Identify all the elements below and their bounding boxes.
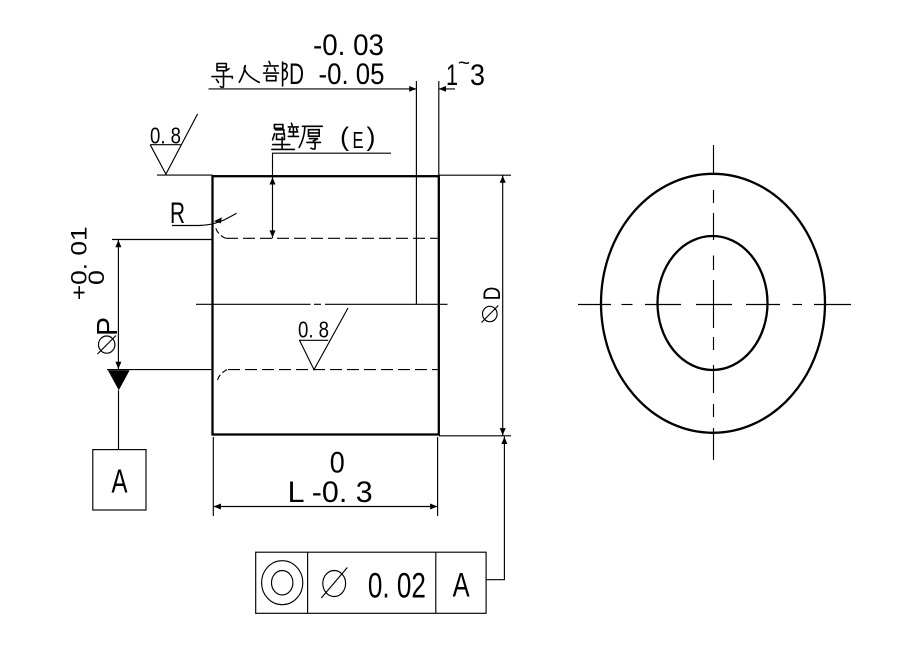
- surface roughness symbol 0.8 (inside bore, lower): [298, 308, 348, 370]
- surface roughness symbol 0.8 (top-left): [150, 114, 198, 174]
- horizontal centerline of body: [196, 303, 311, 305]
- right extension: [437, 437, 439, 516]
- body rectangle (front section view): [213, 176, 439, 434]
- svg-text:1: 1: [446, 59, 458, 92]
- svg-text:0. 8: 0. 8: [298, 317, 329, 343]
- svg-text:D: D: [479, 287, 506, 301]
- wall thickness arrows: [270, 177, 276, 184]
- left extension: [212, 437, 214, 516]
- svg-text:3: 3: [470, 59, 485, 92]
- svg-text:0. 02: 0. 02: [368, 567, 426, 606]
- lead-in depth extension line (x=416): [415, 81, 417, 304]
- bottom extension line: [439, 435, 511, 437]
- lower bore lead-in curve: [218, 370, 228, 380]
- svg-text:D: D: [289, 58, 304, 91]
- end view: outer circle: [601, 174, 825, 433]
- svg-text:L -0. 3: L -0. 3: [288, 476, 373, 509]
- diameter symbol: [323, 571, 346, 597]
- top edge extension line to left: [157, 174, 213, 176]
- CJK 部: [264, 62, 288, 86]
- right edge extension above body: [438, 81, 440, 176]
- svg-text:E: E: [353, 127, 364, 153]
- svg-text:0: 0: [330, 447, 345, 480]
- CJK 导: [212, 64, 232, 88]
- leader to datum box: [118, 390, 120, 449]
- CJK 入: [239, 66, 259, 83]
- end view: inner circle: [658, 236, 768, 370]
- horizontal centerline: [578, 304, 611, 306]
- dimension line: [502, 175, 504, 436]
- svg-text:): ): [367, 122, 376, 152]
- datum box A: [93, 450, 146, 510]
- vertical centerline: [713, 145, 715, 175]
- 壁厚 underline leader: [272, 152, 391, 154]
- lower bore dashed line: [228, 369, 438, 371]
- CJK 厚: [299, 126, 322, 149]
- svg-text:A: A: [453, 567, 470, 605]
- svg-text:-0. 05: -0. 05: [319, 58, 385, 91]
- CJK 壁: [272, 123, 299, 149]
- upper bore lead-in curve: [216, 228, 226, 238]
- dimension line: [213, 506, 437, 508]
- bottom extension line: [107, 369, 213, 371]
- svg-text:+0. 01: +0. 01: [66, 226, 91, 300]
- feature control frame: [256, 552, 486, 613]
- 1~3 dimension short line with left-pointing arrow: [439, 88, 455, 90]
- upper bore dashed line: [226, 237, 438, 239]
- dimension line: [117, 240, 119, 370]
- svg-text:(: (: [340, 122, 349, 152]
- svg-text:~: ~: [458, 52, 470, 75]
- svg-text:P: P: [92, 317, 124, 336]
- top extension line: [439, 174, 511, 176]
- top dimension line (导入部D) with right arrow: [209, 88, 417, 90]
- concentricity symbol: [262, 561, 303, 605]
- svg-text:A: A: [112, 463, 128, 500]
- top extension line: [112, 239, 213, 241]
- svg-text:0: 0: [84, 270, 109, 285]
- leader from frame to ΦD dimension: [486, 437, 504, 580]
- datum triangle: [108, 370, 130, 390]
